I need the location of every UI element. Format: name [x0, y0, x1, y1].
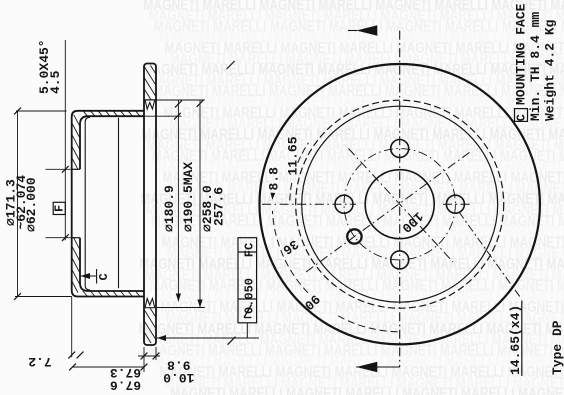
- dim dia171.3: [16, 110, 67, 112]
- dim dia180.9: [177, 100, 179, 302]
- svg-text:4.5: 4.5: [48, 70, 63, 94]
- friction inner edge circle: [302, 106, 498, 302]
- svg-text:67.3: 67.3: [110, 365, 141, 380]
- dim 10.0/9.8: [155, 347, 157, 360]
- dim dia62.074/62.000 + chamfer line: [46, 168, 71, 170]
- diagonal centerline NW-SE: [349, 149, 454, 263]
- svg-text:∅62.000: ∅62.000: [24, 177, 39, 232]
- horizontal centerline left: [262, 203, 356, 205]
- dim dia190.5MAX: [144, 99, 205, 101]
- section: ring/hat junction notch top: [145, 101, 154, 110]
- svg-text:F: F: [53, 205, 67, 212]
- svg-text:∅190.5MAX: ∅190.5MAX: [181, 162, 196, 232]
- section: hat outline: [72, 111, 144, 297]
- dim 67.6/67.3: [143, 347, 145, 372]
- bottom view arrow: [356, 366, 399, 368]
- svg-text:∅180.9: ∅180.9: [162, 185, 177, 232]
- svg-text:11.65: 11.65: [286, 136, 301, 175]
- small locating hole: [347, 229, 361, 243]
- section: ring/hat junction notch bottom: [145, 299, 154, 308]
- section: hatching: [72, 158, 78, 170]
- section: friction ring outline: [144, 64, 156, 346]
- svg-text:C: C: [97, 273, 111, 280]
- top view arrow: [348, 30, 357, 32]
- leader to bolt hole dim: [459, 212, 522, 299]
- section: hat inner step line: [118, 118, 120, 288]
- vertical centerline: [399, 31, 401, 367]
- feature control frame runout 0.050 FC: [238, 238, 257, 323]
- svg-text:MOUNTING FACE: MOUNTING FACE: [514, 3, 529, 105]
- svg-text:MAGNETI MARELLI MAGNETI MARELL: MAGNETI MARELLI MAGNETI MARELLI MAGNETI …: [170, 384, 564, 395]
- 36 deg dimension arc: [290, 181, 292, 200]
- svg-text:C: C: [514, 114, 528, 121]
- svg-text:Weight 4.2 Kg: Weight 4.2 Kg: [543, 19, 558, 121]
- svg-text:Type DP: Type DP: [550, 320, 564, 375]
- dia190.5 dashed circle: [296, 100, 504, 308]
- watermark: [138, 0, 564, 395]
- section: hat inner recess step: [85, 117, 90, 290]
- svg-text:Min. TH 8.4 mm: Min. TH 8.4 mm: [528, 12, 543, 121]
- svg-text:14.65(x4): 14.65(x4): [508, 305, 523, 375]
- section: center hole edges: [72, 168, 80, 170]
- FCF leader to ring face: [246, 323, 248, 338]
- svg-text:7.2: 7.2: [28, 354, 52, 369]
- mounting face note: [515, 109, 528, 122]
- hub bore circle: [365, 170, 434, 239]
- svg-text:257.6: 257.6: [212, 187, 227, 226]
- dim 7.2: [71, 297, 73, 358]
- diagonal centerline through small hole: [306, 152, 470, 272]
- disc outer circle: [260, 64, 540, 344]
- bolt circle BCD100 dash-dot: [344, 149, 455, 260]
- bolt holes x4: [391, 140, 409, 158]
- 90 deg dimension arc: [272, 211, 308, 293]
- svg-text:FC: FC: [243, 243, 257, 257]
- inner-top extension line: [144, 115, 182, 117]
- datum F box: [53, 202, 65, 214]
- datum C flag: [81, 273, 91, 279]
- svg-text:9.8: 9.8: [167, 358, 191, 373]
- svg-text:8.8: 8.8: [267, 167, 282, 191]
